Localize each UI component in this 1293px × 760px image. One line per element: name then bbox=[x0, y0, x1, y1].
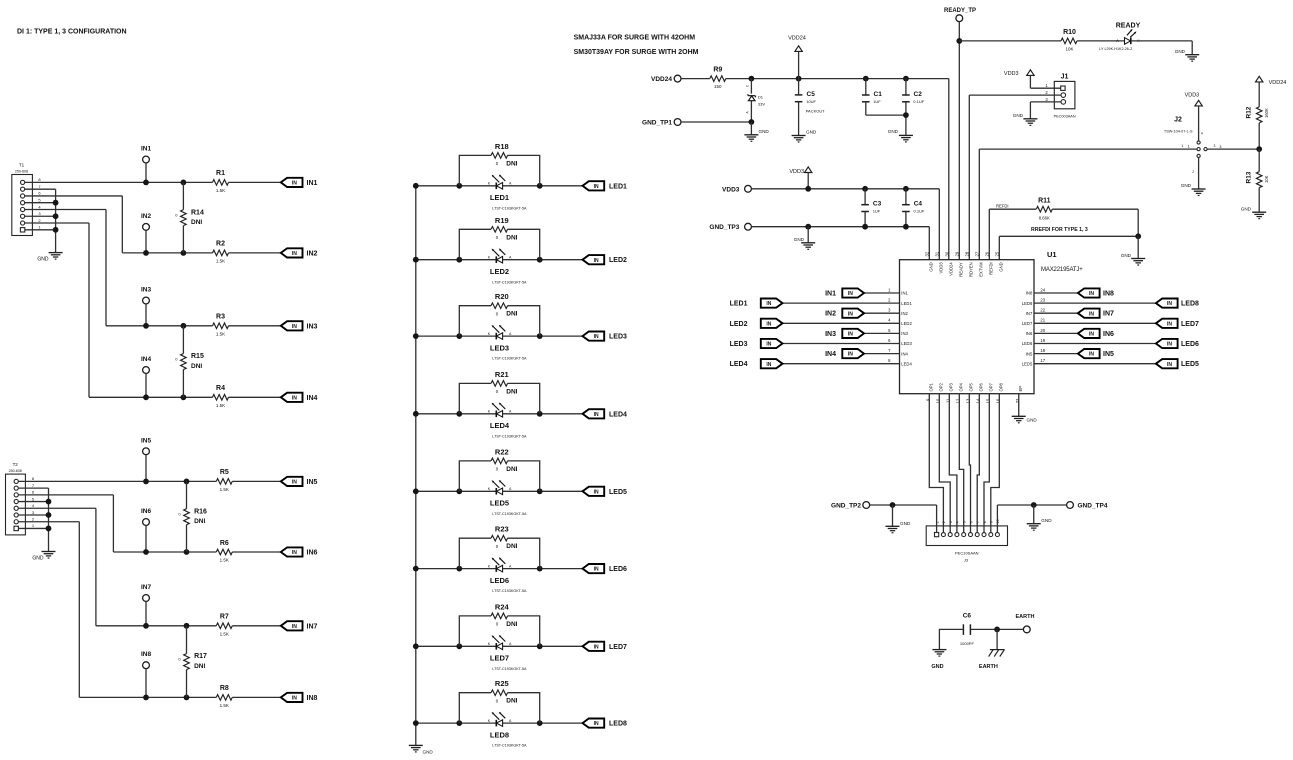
svg-text:J2: J2 bbox=[1174, 117, 1182, 124]
svg-text:D1: D1 bbox=[758, 94, 764, 99]
power symbol VDD3 bbox=[789, 167, 812, 189]
svg-text:150: 150 bbox=[714, 84, 722, 89]
svg-text:IN: IN bbox=[766, 301, 771, 307]
svg-text:IN: IN bbox=[594, 258, 599, 264]
net label IN1 at U1 bbox=[825, 291, 836, 298]
resistor R5 bbox=[216, 469, 232, 492]
connector flag LED8 at U1 bbox=[1156, 299, 1178, 308]
junction IN4 testpoint bbox=[143, 394, 149, 400]
connector J2 bbox=[1164, 117, 1222, 174]
svg-text:4: 4 bbox=[1201, 131, 1203, 135]
net label IN7 at U1 bbox=[1103, 311, 1114, 318]
ground GND_TP4 bbox=[1027, 505, 1052, 530]
svg-text:DNI: DNI bbox=[191, 363, 202, 370]
connector flag IN6 at U1 bbox=[1078, 329, 1100, 338]
svg-text:1UF: 1UF bbox=[873, 99, 881, 104]
resistor R4 bbox=[213, 385, 229, 408]
svg-text:VDD24: VDD24 bbox=[788, 35, 806, 41]
svg-text:26: 26 bbox=[985, 251, 990, 256]
svg-text:J1: J1 bbox=[1061, 73, 1069, 80]
svg-text:DI 1: TYPE 1, 3 CONFIGURATION: DI 1: TYPE 1, 3 CONFIGURATION bbox=[17, 29, 127, 36]
svg-text:LED6: LED6 bbox=[1022, 341, 1033, 346]
junction READY_TP bbox=[956, 38, 962, 44]
svg-text:IN6: IN6 bbox=[141, 508, 152, 515]
junction C5 bbox=[796, 76, 802, 82]
wire GND_TP2 to J3 pin1 bbox=[870, 505, 937, 532]
junction C1 bbox=[863, 76, 869, 82]
connector flag LED1 at U1 bbox=[761, 299, 783, 308]
svg-text:OP7: OP7 bbox=[989, 382, 994, 391]
svg-text:IN5: IN5 bbox=[1103, 351, 1114, 358]
wire U1 pin19 LED6 bbox=[1034, 343, 1156, 345]
terminal GND_TP4 bbox=[1067, 502, 1108, 510]
svg-text:T1: T1 bbox=[19, 163, 25, 168]
wire J2 pin2 to ground bbox=[1198, 158, 1200, 189]
svg-text:R5: R5 bbox=[220, 469, 229, 476]
svg-text:IN4: IN4 bbox=[141, 356, 152, 363]
svg-text:1.5K: 1.5K bbox=[216, 331, 225, 336]
svg-text:IN1: IN1 bbox=[901, 291, 908, 296]
wire U1 pin24 IN8 bbox=[1034, 292, 1078, 294]
svg-text:IN: IN bbox=[766, 321, 771, 327]
junction D1 anode bbox=[749, 119, 755, 125]
net label IN8 bbox=[307, 695, 318, 702]
wire T1 pin2 to IN4 row bbox=[88, 223, 90, 397]
svg-text:GND_TP2: GND_TP2 bbox=[831, 503, 861, 510]
svg-text:PEC003AAN: PEC003AAN bbox=[1054, 115, 1076, 119]
power symbol VDD24 at R12 bbox=[1256, 76, 1287, 107]
wire R12 to junction bbox=[1258, 123, 1260, 149]
resistor R2 bbox=[213, 241, 229, 264]
capacitor C4 bbox=[902, 189, 925, 227]
connector flag LED7 net bbox=[583, 642, 605, 651]
svg-text:U1: U1 bbox=[1047, 250, 1057, 259]
svg-text:READY: READY bbox=[1116, 22, 1141, 29]
net label IN4 bbox=[307, 395, 318, 402]
junction LED1 left bbox=[456, 183, 462, 189]
svg-text:10K: 10K bbox=[1065, 46, 1073, 51]
svg-text:LED6: LED6 bbox=[490, 576, 509, 585]
svg-text:27: 27 bbox=[975, 251, 980, 256]
note SMAJ33A surge bbox=[574, 35, 696, 42]
terminal READY_TP bbox=[944, 8, 976, 21]
ground J1 bbox=[1013, 113, 1038, 125]
svg-text:24: 24 bbox=[1040, 287, 1045, 292]
svg-text:OP2: OP2 bbox=[939, 382, 944, 391]
svg-text:LED1: LED1 bbox=[490, 193, 509, 202]
svg-text:GND_TP3: GND_TP3 bbox=[709, 224, 739, 231]
terminal block T1 bbox=[12, 163, 42, 236]
wire LED6 row bbox=[416, 568, 583, 570]
note SM30T39AY surge bbox=[574, 49, 699, 56]
svg-text:GND: GND bbox=[759, 129, 770, 134]
svg-text:DNI: DNI bbox=[506, 160, 517, 167]
svg-text:VDD3: VDD3 bbox=[1004, 71, 1019, 77]
power symbol VDD3 at J1 bbox=[1004, 70, 1061, 88]
net label LED3 bbox=[609, 334, 627, 341]
resistor R8 bbox=[216, 685, 232, 708]
junction LED1 right bbox=[537, 183, 543, 189]
svg-text:C5: C5 bbox=[807, 91, 816, 98]
ground J2 bbox=[1181, 183, 1206, 195]
label LED8 bbox=[490, 730, 509, 739]
svg-text:LTST-C193KGKT-5A: LTST-C193KGKT-5A bbox=[492, 512, 527, 516]
svg-text:C3: C3 bbox=[873, 201, 882, 208]
wire LED1 row bbox=[416, 185, 583, 187]
net label IN5 bbox=[307, 479, 318, 486]
svg-text:3: 3 bbox=[1214, 144, 1216, 148]
junction LED7 left bbox=[456, 643, 462, 649]
part number LED3 bbox=[492, 357, 527, 361]
junction IN4 resistor column bbox=[181, 394, 187, 400]
test point IN7 bbox=[141, 584, 152, 626]
svg-text:IN: IN bbox=[292, 696, 297, 702]
svg-text:IN3: IN3 bbox=[307, 323, 318, 330]
svg-text:LED5: LED5 bbox=[1022, 361, 1033, 366]
ground GND_TP3 bbox=[794, 227, 815, 250]
wire U1 EP to ground bbox=[1018, 394, 1020, 417]
svg-text:28: 28 bbox=[965, 251, 970, 256]
wire LED2 row bbox=[416, 259, 583, 261]
svg-text:1.5K: 1.5K bbox=[216, 259, 225, 264]
connector flag IN3 at U1 bbox=[842, 329, 864, 338]
net label LED4 at U1 bbox=[730, 361, 748, 368]
svg-text:IN3: IN3 bbox=[901, 331, 908, 336]
svg-text:R10: R10 bbox=[1063, 29, 1076, 36]
svg-text:IN: IN bbox=[292, 324, 297, 330]
svg-text:LED8: LED8 bbox=[490, 730, 509, 739]
junction IN5 resistor column bbox=[184, 479, 190, 485]
wire U1 pin27 to J2 pin1 bbox=[979, 149, 1197, 260]
junction LED7 right bbox=[537, 643, 543, 649]
svg-text:R17: R17 bbox=[194, 653, 207, 660]
resistor R22 (DNI bypass) bbox=[459, 447, 539, 491]
net label LED8 bbox=[609, 721, 627, 728]
wire T2 pin4 to IN7 row bbox=[95, 508, 97, 626]
svg-text:DNI: DNI bbox=[506, 234, 517, 241]
connector flag IN5 at U1 bbox=[1078, 349, 1100, 358]
svg-text:IN: IN bbox=[292, 624, 297, 630]
svg-text:EARTH: EARTH bbox=[1016, 614, 1035, 620]
svg-text:IN6: IN6 bbox=[307, 550, 318, 557]
resistor R21 (DNI bypass) bbox=[459, 370, 539, 414]
svg-text:DNI: DNI bbox=[506, 466, 517, 473]
svg-text:OP8: OP8 bbox=[999, 382, 1004, 391]
svg-text:DNI: DNI bbox=[506, 388, 517, 395]
svg-text:DNI: DNI bbox=[194, 518, 205, 525]
power symbol VDD3 at J2 bbox=[1185, 93, 1203, 141]
net label IN2 at U1 bbox=[825, 311, 836, 318]
svg-text:32: 32 bbox=[925, 251, 930, 256]
test point IN6 bbox=[141, 508, 152, 552]
svg-text:R3: R3 bbox=[216, 314, 225, 321]
svg-text:0.1UF: 0.1UF bbox=[913, 99, 924, 104]
wire IN2 row bbox=[122, 252, 280, 254]
net label IN5 at U1 bbox=[1103, 351, 1114, 358]
svg-text:LED7: LED7 bbox=[1022, 321, 1033, 326]
junction IN1 testpoint bbox=[143, 180, 149, 186]
svg-text:C2: C2 bbox=[914, 91, 923, 98]
label LED7 bbox=[490, 654, 509, 663]
svg-text:R18: R18 bbox=[495, 142, 509, 151]
led LED2 bbox=[488, 248, 512, 263]
terminal EARTH bbox=[1016, 614, 1035, 633]
led LED5 bbox=[488, 480, 512, 495]
svg-text:6: 6 bbox=[969, 521, 973, 523]
led LED7 bbox=[488, 635, 512, 650]
wire VDD3 rail to U1 pin31 bbox=[938, 189, 940, 260]
resistor R3 bbox=[213, 314, 229, 337]
svg-text:C4: C4 bbox=[914, 201, 923, 208]
resistor R18 (DNI bypass) bbox=[459, 142, 539, 186]
wire R13 to ground bbox=[1258, 188, 1260, 213]
svg-text:GND: GND bbox=[931, 664, 943, 670]
svg-text:R9: R9 bbox=[713, 67, 722, 74]
ground C2 bbox=[888, 129, 913, 142]
net label IN3 at U1 bbox=[825, 331, 836, 338]
U1 bottom pin numbers and names bbox=[926, 382, 1024, 403]
resistor R23 (DNI bypass) bbox=[459, 525, 539, 569]
svg-text:LED4: LED4 bbox=[901, 361, 912, 366]
resistor R20 (DNI bypass) bbox=[459, 292, 539, 336]
svg-text:1.5K: 1.5K bbox=[216, 403, 225, 408]
net label IN7 bbox=[307, 623, 318, 630]
net label IN2 bbox=[307, 250, 318, 257]
connector flag IN1 bbox=[281, 178, 303, 187]
svg-text:IN: IN bbox=[848, 311, 853, 317]
svg-text:IN: IN bbox=[766, 342, 771, 348]
junction T2 pin3 bbox=[46, 512, 52, 518]
svg-text:LED2: LED2 bbox=[901, 321, 912, 326]
net label IN6 bbox=[307, 550, 318, 557]
junction IN7 testpoint bbox=[143, 623, 149, 629]
svg-text:22: 22 bbox=[1040, 308, 1045, 313]
svg-text:VDD3: VDD3 bbox=[939, 262, 944, 274]
net label LED6 bbox=[609, 566, 627, 573]
svg-text:DNI: DNI bbox=[191, 219, 202, 226]
svg-text:1: 1 bbox=[1181, 144, 1183, 148]
junction IN3 testpoint bbox=[143, 323, 149, 329]
svg-text:21: 21 bbox=[1040, 318, 1045, 323]
ground R13 bbox=[1241, 206, 1266, 218]
connector flag LED2 net bbox=[583, 255, 605, 264]
svg-text:LED2: LED2 bbox=[490, 267, 509, 276]
junction GND_TP2 ground bbox=[890, 502, 896, 508]
svg-text:IN: IN bbox=[1167, 342, 1172, 348]
wire C6 to EARTH terminal bbox=[970, 628, 1023, 630]
connector flag IN2 at U1 bbox=[842, 309, 864, 318]
wire U1 pin3 IN2 bbox=[864, 312, 900, 314]
svg-text:PACKOUT: PACKOUT bbox=[806, 108, 826, 113]
svg-text:8.66K: 8.66K bbox=[1039, 215, 1050, 220]
svg-text:IN6: IN6 bbox=[1026, 331, 1033, 336]
wire LED4 row bbox=[416, 413, 583, 415]
resistor R24 (DNI bypass) bbox=[459, 602, 539, 646]
svg-text:IN: IN bbox=[594, 489, 599, 495]
wire IN1 row bbox=[25, 181, 281, 183]
net label IN4 at U1 bbox=[825, 351, 836, 358]
note DI 1 configuration bbox=[17, 29, 127, 36]
junction LED4 left bbox=[456, 411, 462, 417]
svg-text:T2: T2 bbox=[13, 462, 19, 467]
svg-text:0.1UF: 0.1UF bbox=[914, 209, 925, 214]
resistor R16 (DNI) bbox=[178, 481, 207, 552]
svg-text:IN1: IN1 bbox=[307, 180, 318, 187]
wire R11 to ground junction bbox=[1052, 209, 1138, 236]
wire junction to R13 bbox=[1258, 149, 1260, 172]
terminal VDD24 bbox=[651, 75, 681, 83]
test point IN3 bbox=[141, 287, 152, 326]
label LED1 bbox=[490, 193, 509, 202]
junction LED6 right bbox=[537, 566, 543, 572]
svg-text:IN7: IN7 bbox=[1103, 311, 1114, 318]
wire C6 ground leg bbox=[939, 629, 962, 649]
wire READY_TP to R10 bbox=[959, 40, 1061, 42]
junction GND_TP3 ground bbox=[805, 224, 811, 230]
svg-text:LED1: LED1 bbox=[901, 301, 912, 306]
net label IN8 at U1 bbox=[1103, 291, 1114, 298]
wire J1 pin3 to ground bbox=[1030, 102, 1061, 119]
svg-text:1.5K: 1.5K bbox=[216, 188, 225, 193]
svg-text:LED4: LED4 bbox=[730, 361, 748, 368]
svg-text:GND: GND bbox=[1181, 183, 1192, 188]
connector flag LED4 at U1 bbox=[761, 359, 783, 368]
wire J3 pin entries bbox=[943, 526, 990, 533]
svg-text:LED3: LED3 bbox=[490, 343, 509, 352]
svg-text:1.5K: 1.5K bbox=[220, 631, 229, 636]
svg-text:OP5: OP5 bbox=[969, 382, 974, 391]
svg-text:VDD24: VDD24 bbox=[949, 262, 954, 276]
U1 side pin numbers and names bbox=[888, 287, 1046, 366]
wire J1 pin2 to U1 pin28 bbox=[969, 95, 1061, 260]
wire READY led to ground bbox=[1131, 41, 1192, 55]
connector flag LED3 net bbox=[583, 332, 605, 341]
junction LED3 right bbox=[537, 333, 543, 339]
svg-text:GND_TP1: GND_TP1 bbox=[642, 120, 672, 127]
capacitor C1 bbox=[862, 79, 906, 116]
junction C4 top bbox=[903, 186, 909, 192]
svg-text:R22: R22 bbox=[495, 447, 509, 456]
led LED1 bbox=[488, 175, 512, 190]
junction IN8 resistor column bbox=[184, 695, 190, 701]
power symbol VDD24 bbox=[788, 35, 806, 78]
ground R11 bbox=[1121, 236, 1145, 265]
svg-text:23: 23 bbox=[1040, 298, 1045, 303]
label LED2 bbox=[490, 267, 509, 276]
terminal VDD3 bbox=[722, 185, 751, 193]
svg-text:R15: R15 bbox=[191, 353, 204, 360]
part number U1 bbox=[1041, 267, 1083, 273]
svg-text:IN: IN bbox=[594, 567, 599, 573]
svg-text:29: 29 bbox=[955, 251, 960, 256]
label LED4 bbox=[490, 421, 510, 430]
svg-text:R7: R7 bbox=[220, 614, 229, 621]
capacitor C3 bbox=[861, 189, 881, 227]
svg-text:GND: GND bbox=[423, 750, 434, 755]
svg-text:R20: R20 bbox=[495, 292, 509, 301]
svg-text:READY_TP: READY_TP bbox=[944, 8, 976, 14]
svg-text:DNI: DNI bbox=[506, 698, 517, 705]
svg-text:R13: R13 bbox=[1246, 171, 1253, 183]
svg-text:10K: 10K bbox=[1264, 175, 1269, 183]
svg-text:LED7: LED7 bbox=[1181, 321, 1199, 328]
svg-text:PEC10SAAN: PEC10SAAN bbox=[955, 550, 979, 555]
svg-text:IN2: IN2 bbox=[901, 311, 908, 316]
junction R11 ground bbox=[1135, 233, 1141, 239]
wire LED7 row bbox=[416, 645, 583, 647]
part number LED7 bbox=[492, 667, 527, 671]
junction LED2 left bbox=[456, 257, 462, 263]
wire LED ground bus bbox=[415, 186, 417, 746]
svg-text:LED4: LED4 bbox=[609, 411, 627, 418]
svg-text:31: 31 bbox=[935, 251, 940, 256]
svg-text:IN: IN bbox=[594, 184, 599, 190]
svg-text:LED3: LED3 bbox=[730, 341, 748, 348]
wire VDD24 rail to U1 pin30 bbox=[948, 79, 950, 260]
svg-text:IN: IN bbox=[292, 480, 297, 486]
svg-text:GND: GND bbox=[1013, 113, 1024, 118]
test point IN2 bbox=[141, 213, 152, 253]
resistor R17 (DNI) bbox=[178, 626, 207, 698]
net label LED6 at U1 bbox=[1181, 341, 1199, 348]
net label IN1 bbox=[307, 180, 318, 187]
svg-text:SMAJ33A FOR SURGE WITH 42OHM: SMAJ33A FOR SURGE WITH 42OHM bbox=[574, 35, 696, 42]
svg-text:1.5K: 1.5K bbox=[220, 558, 229, 563]
junction LED4 bus bbox=[413, 411, 419, 417]
ground T1 bbox=[37, 253, 62, 263]
junction IN2 resistor column bbox=[181, 250, 187, 256]
svg-text:IN7: IN7 bbox=[141, 584, 152, 591]
svg-text:R6: R6 bbox=[220, 540, 229, 547]
wire VDD3 rail bbox=[751, 188, 939, 190]
junction T1 pin5 bbox=[53, 200, 59, 206]
connector flag LED2 at U1 bbox=[761, 319, 783, 328]
wire VDD24 to R9 bbox=[681, 78, 710, 80]
junction R12 R13 bbox=[1256, 146, 1262, 152]
junction LED8 right bbox=[537, 720, 543, 726]
svg-text:C6: C6 bbox=[963, 613, 972, 620]
wire T1 ground bus bbox=[55, 189, 57, 252]
svg-text:7: 7 bbox=[976, 521, 980, 523]
label U1 bbox=[1047, 250, 1057, 259]
svg-text:20: 20 bbox=[1040, 328, 1045, 333]
net label LED1 bbox=[609, 183, 627, 190]
ground READY led bbox=[1175, 49, 1199, 61]
label LED5 bbox=[490, 499, 509, 508]
connector flag IN1 at U1 bbox=[842, 288, 864, 297]
svg-text:GND: GND bbox=[806, 129, 817, 134]
svg-text:GND: GND bbox=[1121, 253, 1132, 258]
svg-text:LED8: LED8 bbox=[1022, 301, 1033, 306]
wire U1 pin1 IN1 bbox=[864, 292, 900, 294]
svg-text:LTST-C193KGKT-5A: LTST-C193KGKT-5A bbox=[492, 744, 527, 748]
svg-text:REFDI: REFDI bbox=[996, 203, 1009, 208]
part number LED6 bbox=[492, 589, 527, 593]
part number LED5 bbox=[492, 512, 527, 516]
svg-text:LTST-C193KGKT-5A: LTST-C193KGKT-5A bbox=[492, 589, 527, 593]
svg-text:IN8: IN8 bbox=[1026, 291, 1033, 296]
terminal GND_TP1 bbox=[642, 119, 681, 127]
svg-text:IN: IN bbox=[292, 395, 297, 401]
svg-text:LED5: LED5 bbox=[490, 499, 509, 508]
svg-text:LED5: LED5 bbox=[609, 489, 627, 496]
wire IN4 row bbox=[89, 396, 281, 398]
svg-text:R1: R1 bbox=[216, 170, 225, 177]
junction C3 bottom bbox=[862, 224, 868, 230]
wire J2 pin3 to R12 R13 bbox=[1207, 148, 1259, 150]
connector flag IN7 at U1 bbox=[1078, 309, 1100, 318]
net label LED3 at U1 bbox=[730, 341, 748, 348]
